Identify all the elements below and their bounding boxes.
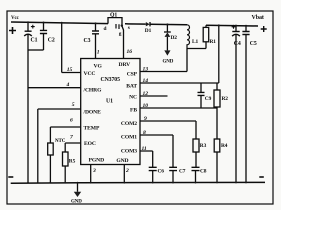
svg-text:16: 16 (127, 49, 133, 55)
svg-text:D1: D1 (145, 28, 152, 34)
capacitor C7 (169, 167, 177, 170)
wire GND pin2 drop (123, 165, 125, 183)
resistor R3 (193, 139, 199, 152)
svg-text:NTC: NTC (55, 139, 66, 144)
wire FB pin10 line (140, 107, 217, 109)
svg-text:COM3: COM3 (121, 149, 137, 155)
svg-text:s: s (128, 25, 130, 31)
svg-text:TEMP: TEMP (84, 125, 100, 131)
svg-text:VCC: VCC (84, 71, 96, 77)
svg-text:C6: C6 (158, 169, 165, 175)
svg-text:8: 8 (143, 130, 146, 136)
svg-text:C4: C4 (234, 41, 241, 47)
svg-text:14: 14 (143, 78, 149, 84)
svg-text:COM2: COM2 (121, 121, 137, 127)
wire BAT pin14 line (140, 82, 219, 84)
capacitor C3 (95, 23, 97, 31)
border frame (7, 11, 273, 204)
svg-text:6: 6 (70, 117, 73, 123)
wire /CHRG pin4 line (28, 87, 81, 89)
wire bottom rail (11, 181, 265, 184)
wire /DONE pin5 line and drop (38, 109, 81, 183)
resistor R5 (63, 152, 69, 166)
diode D1 (146, 22, 150, 26)
svg-text:FB: FB (130, 108, 137, 114)
svg-text:BAT: BAT (126, 84, 137, 90)
pin number labels (66, 49, 149, 174)
wire top rail drop to BAT line (218, 25, 220, 83)
node - input terminal (8, 176, 13, 178)
node + input terminal (9, 27, 16, 34)
wire C1 junction down to bottom rail (with /CHRG tap) (27, 50, 29, 183)
svg-text:COM1: COM1 (121, 135, 137, 141)
node + battery terminal (261, 26, 267, 32)
wire FB down to R4 (216, 108, 218, 139)
capacitor C6 (149, 167, 157, 170)
svg-text:15: 15 (67, 67, 73, 73)
wire top rail left segment (11, 22, 108, 24)
svg-text:R2: R2 (222, 96, 229, 102)
svg-text:EOC: EOC (84, 141, 96, 147)
svg-text:C9: C9 (205, 96, 212, 102)
capacitor C5 (245, 26, 247, 32)
wire COM3 pin11 line (140, 151, 153, 167)
transistor Q1 (108, 18, 122, 26)
wire Q1 gate to pin16 (122, 26, 124, 59)
wire COM2 pin9 line (140, 121, 196, 139)
svg-text:5: 5 (72, 102, 75, 108)
op-amp U1 IC CN3705 body (81, 59, 140, 165)
svg-text:L1: L1 (192, 39, 198, 45)
wire COM1 pin8 line (140, 135, 173, 167)
svg-text:CN3705: CN3705 (101, 77, 121, 83)
capacitor C4 (235, 26, 237, 32)
svg-text:U1: U1 (106, 99, 113, 105)
capacitor C9 (200, 83, 202, 92)
node Vcc label (11, 16, 20, 21)
svg-text:1: 1 (97, 50, 100, 56)
svg-text:C7: C7 (179, 169, 186, 175)
svg-text:GND: GND (116, 158, 128, 164)
svg-text:C1: C1 (31, 38, 38, 44)
svg-text:9: 9 (144, 116, 147, 122)
svg-text:d: d (104, 26, 107, 32)
capacitor C2 (43, 23, 45, 31)
capacitor C1 (27, 22, 29, 31)
wire CSP pin13 to L1/R1 junction (140, 49, 187, 72)
svg-text:D2: D2 (171, 35, 178, 41)
node - battery terminal (259, 176, 264, 178)
node D2 junction (166, 23, 168, 25)
wire PGND pin3 drop (90, 165, 92, 183)
wire VCC pin15 to top rail (62, 23, 81, 73)
resistor R1 (205, 25, 207, 48)
svg-text:VG: VG (94, 64, 103, 70)
svg-text:C2: C2 (48, 38, 55, 44)
svg-text:C8: C8 (200, 169, 207, 175)
svg-text:R5: R5 (69, 159, 76, 165)
diode D2 (166, 25, 168, 33)
thermistor NTC (48, 143, 54, 155)
svg-text:11: 11 (142, 146, 147, 152)
wire top rail segment D1 to L1 (150, 23, 187, 26)
svg-text:R4: R4 (221, 143, 228, 149)
svg-text:13: 13 (143, 67, 149, 73)
svg-text:/DONE: /DONE (83, 110, 102, 116)
svg-text:C3: C3 (84, 38, 91, 44)
svg-text:NC: NC (129, 95, 137, 101)
svg-text:Vbat: Vbat (252, 15, 264, 21)
wire EOC pin7 line (65, 143, 81, 152)
svg-text:3: 3 (92, 168, 96, 174)
wire L1/R1 bottom join (187, 48, 206, 50)
inductor L1 (187, 25, 190, 49)
svg-text:Vcc: Vcc (11, 16, 20, 21)
svg-text:10: 10 (143, 103, 149, 109)
wire C1/C2 bottom join (28, 49, 44, 51)
svg-text:/CHRG: /CHRG (83, 87, 103, 93)
svg-text:GND: GND (163, 60, 174, 65)
wire top rail right segment R1 to Vbat+ (206, 24, 258, 27)
wire NC pin12 stub (140, 95, 168, 97)
node Vbat label (252, 15, 264, 21)
svg-text:C5: C5 (250, 41, 257, 47)
svg-text:DRV: DRV (119, 62, 131, 68)
svg-text:R3: R3 (200, 143, 207, 149)
svg-text:GND: GND (71, 199, 82, 204)
svg-text:CSP: CSP (127, 72, 138, 78)
svg-text:g: g (119, 31, 122, 37)
ground symbol below bottom rail (77, 183, 79, 192)
wire top rail middle segment after Q1 (125, 23, 146, 25)
resistor R2 (216, 83, 218, 108)
svg-text:Q1: Q1 (110, 13, 117, 19)
svg-text:R1: R1 (210, 39, 217, 45)
capacitor C8 (192, 167, 200, 170)
wire TEMP pin6 line (50, 127, 80, 143)
resistor R4 (214, 139, 220, 152)
ground below D2 (164, 50, 170, 55)
svg-text:PGND: PGND (89, 158, 105, 164)
svg-text:7: 7 (70, 135, 73, 141)
svg-text:12: 12 (143, 91, 149, 97)
svg-text:2: 2 (125, 168, 129, 174)
